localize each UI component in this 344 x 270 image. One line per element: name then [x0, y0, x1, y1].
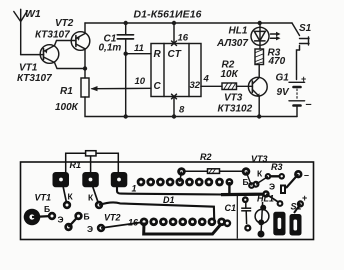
svg-text:R1: R1 [60, 86, 73, 97]
trace sq2 to K2 [93, 186, 100, 205]
wire VT2 collector down to node [84, 49, 86, 69]
wire R1 wiper to pin 10 [96, 87, 151, 89]
svg-text:R: R [154, 49, 162, 60]
trace big pad to pad [32, 216, 52, 217]
trace minus pad diagonal [286, 174, 298, 188]
node C1 top [124, 21, 128, 25]
trace E2 to pin16 pad [101, 222, 144, 228]
svg-text:Б: Б [243, 177, 249, 187]
trace via down to bar [228, 182, 230, 194]
svg-text:+: + [301, 74, 306, 84]
C1 top pad [242, 196, 249, 203]
R2 right dark pad (B VT3) [242, 167, 251, 176]
svg-text:D1-К561ИЕ16: D1-К561ИЕ16 [134, 10, 202, 21]
svg-text:Э: Э [87, 224, 93, 234]
wire VT3 emitter down to rail [258, 96, 260, 116]
D1 bottom pad row [140, 217, 226, 226]
svg-text:C: C [154, 81, 162, 92]
svg-text:R3: R3 [271, 162, 283, 172]
thin vertical trace right of C1 label [236, 196, 238, 239]
pad E2 [97, 224, 105, 232]
black rect 2 [290, 214, 302, 236]
svg-text:VT1: VT1 [19, 63, 38, 74]
trace E1 to B2 [69, 216, 79, 227]
svg-text:C1: C1 [225, 203, 237, 213]
svg-text:КТ3102: КТ3102 [218, 104, 253, 115]
curved trace from sq3 [117, 185, 222, 195]
svg-text:1: 1 [132, 184, 137, 194]
wire VT2 emitter to top rail [84, 23, 86, 34]
svg-text:4: 4 [203, 74, 210, 85]
trace sq1 to K1 [63, 186, 67, 205]
svg-text:–: – [304, 170, 309, 180]
pad via near C1 [226, 178, 234, 186]
svg-text:VT3: VT3 [224, 93, 243, 104]
svg-text:CT: CT [168, 49, 182, 60]
top rail [85, 22, 292, 24]
node collectors junction [83, 66, 87, 70]
R3 pads pcb [265, 173, 285, 180]
C1 pcb capacitor [241, 201, 251, 224]
svg-text:G1: G1 [276, 73, 290, 84]
svg-text:VT2: VT2 [104, 213, 121, 223]
resistor R3 [255, 49, 264, 65]
svg-text:Э: Э [269, 182, 275, 192]
pad B VT3 [248, 182, 255, 189]
svg-text:16: 16 [128, 218, 139, 228]
pad near big pad [48, 212, 56, 220]
svg-text:S1: S1 [291, 202, 302, 212]
pad B2 [74, 212, 82, 220]
svg-text:11: 11 [134, 43, 144, 54]
wire switch to battery [297, 50, 300, 80]
trace K to R3 [256, 177, 268, 185]
wire node to R1 [84, 69, 86, 79]
svg-text:К: К [88, 193, 94, 203]
resistor R1 (variable) [81, 78, 98, 97]
svg-text:Б: Б [44, 204, 50, 214]
svg-text:D1: D1 [163, 195, 175, 205]
pad S1 [277, 200, 284, 207]
black rect 1 [273, 212, 285, 236]
thick bottom trace [144, 223, 222, 235]
trace from K2 along middle to bottom row [99, 202, 214, 219]
svg-text:100К: 100К [55, 102, 79, 113]
wire R1 bottom to ground rail [85, 97, 297, 117]
wire VT3 collector up to R3 [258, 65, 260, 78]
wire pin 11 [126, 53, 151, 55]
svg-text:10: 10 [135, 76, 146, 87]
svg-text:0,1m: 0,1m [99, 43, 122, 54]
svg-text:КТ3107: КТ3107 [17, 73, 52, 84]
C1 left pad [223, 219, 231, 227]
big pad B VT1 [24, 209, 41, 226]
pad plus [297, 200, 304, 207]
wire pin 32/4 to R2 [201, 85, 222, 87]
board outline [21, 162, 314, 240]
wire C1 node down to ground rail [125, 54, 127, 117]
svg-text:VT2: VT2 [55, 18, 74, 29]
R2 body pcb [186, 169, 243, 174]
resistor R2 [222, 83, 237, 90]
wire antenna to VT1 base [21, 54, 44, 56]
capacitor C1 [117, 23, 133, 54]
svg-text:КТ3107: КТ3107 [35, 30, 70, 41]
battery G1 [289, 82, 305, 116]
svg-text:W1: W1 [25, 8, 41, 20]
svg-text:HL1: HL1 [229, 26, 248, 37]
HL1 pcb [255, 202, 269, 238]
node C1 bottom / pin 11 [124, 52, 128, 56]
svg-text:–: – [306, 99, 312, 111]
pad E VT3 [262, 190, 269, 197]
trace plus pad diagonal [294, 204, 300, 213]
svg-text:470: 470 [268, 56, 286, 67]
svg-text:Б: Б [84, 212, 90, 222]
node ground rail C1 [124, 114, 128, 118]
R2 pcb: left dark pad [177, 167, 186, 176]
svg-text:S1: S1 [299, 23, 312, 34]
svg-text:HL1: HL1 [257, 194, 274, 204]
D1 top pad row [137, 178, 224, 187]
pad E1 [64, 223, 72, 231]
node VT3 emitter ground [257, 114, 261, 118]
wire VT1 emitter to VT2 base [55, 41, 76, 46]
svg-text:R1: R1 [70, 160, 82, 170]
LED HL1 [251, 23, 281, 49]
svg-text:К: К [68, 192, 74, 202]
svg-text:10К: 10К [221, 69, 239, 80]
square pad 1 [53, 172, 70, 187]
svg-text:VT1: VT1 [35, 193, 52, 203]
pin 8 wire [173, 97, 175, 117]
svg-text:К: К [257, 169, 263, 179]
node HL1 rail [258, 21, 262, 25]
IC D1 K561IE16 [151, 44, 201, 97]
wire R2 to VT3 base [237, 85, 253, 87]
transistor VT2 [71, 32, 90, 51]
wire VT1 collector down/right to node [55, 63, 86, 69]
transistor VT1 [40, 45, 59, 64]
pad K2 [95, 201, 103, 209]
C1 bottom pad [244, 224, 251, 231]
svg-text:9V: 9V [277, 87, 291, 98]
svg-text:АЛ307: АЛ307 [216, 38, 248, 49]
pin 8 cross mark [172, 94, 177, 99]
square pad 3 [111, 172, 128, 187]
svg-text:Э: Э [58, 215, 64, 225]
transistor VT3 [248, 77, 267, 97]
pad K VT3 [253, 181, 260, 188]
node pin8 ground [172, 114, 176, 118]
svg-text:8: 8 [179, 105, 185, 116]
pin 16 wire [173, 23, 175, 44]
trace pad5 up [180, 172, 182, 183]
svg-text:16: 16 [178, 33, 189, 44]
pad K1 [63, 201, 71, 209]
svg-text:VT3: VT3 [251, 154, 268, 164]
top right pad minus [294, 170, 302, 178]
pin 16 cross mark [172, 41, 177, 46]
trimmer R1 above board [66, 151, 119, 173]
square pad 2 [82, 172, 99, 187]
trace B pad up [246, 172, 252, 186]
switch S1 [292, 23, 309, 50]
antenna W1 [14, 9, 28, 54]
small component below R3 [280, 185, 286, 195]
svg-text:R2: R2 [200, 152, 212, 162]
node pin16 rail [172, 21, 176, 25]
svg-text:32: 32 [190, 80, 201, 91]
trace E to S1 pad [266, 194, 279, 203]
